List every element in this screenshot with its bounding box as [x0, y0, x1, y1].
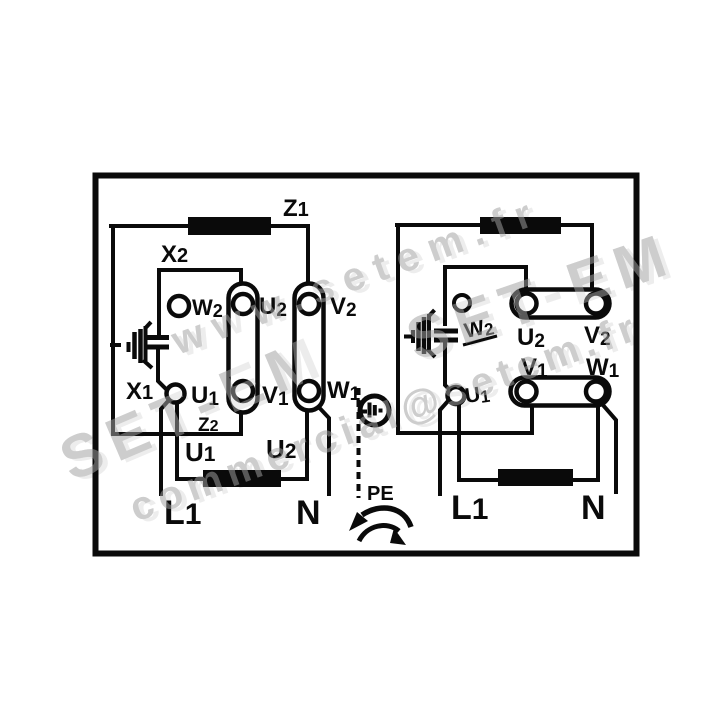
- svg-text:X2: X2: [161, 241, 188, 268]
- svg-text:L1: L1: [451, 489, 488, 527]
- svg-text:Z1: Z1: [283, 195, 309, 222]
- svg-text:N: N: [296, 494, 321, 532]
- svg-text:N: N: [581, 489, 606, 527]
- svg-text:PE: PE: [367, 483, 394, 505]
